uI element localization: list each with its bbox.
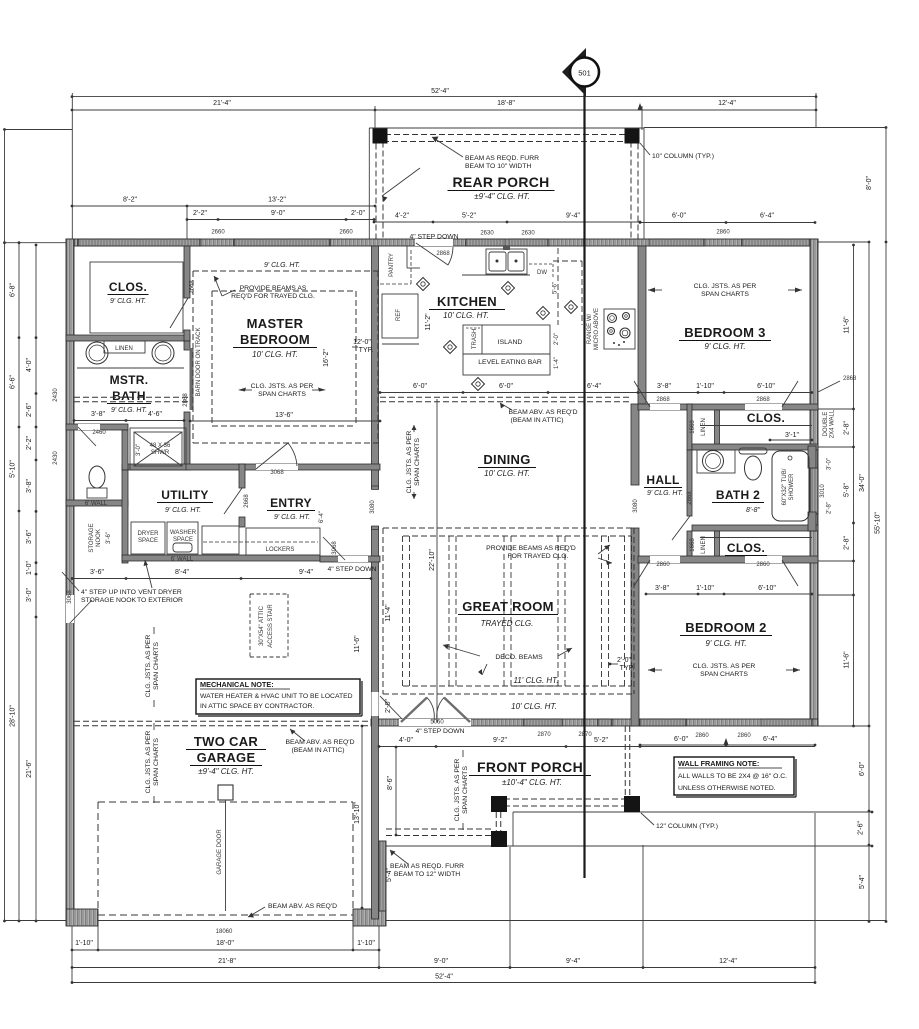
dim 13'-6 master [190, 420, 380, 422]
svg-text:2'-0": 2'-0" [554, 333, 560, 345]
great room tray dashed outer [383, 527, 634, 529]
svg-text:21'-4": 21'-4" [213, 100, 231, 107]
svg-text:UNLESS OTHERWISE NOTED.: UNLESS OTHERWISE NOTED. [678, 785, 776, 792]
svg-text:8'-0": 8'-0" [866, 176, 873, 190]
svg-text:1'-10": 1'-10" [696, 585, 714, 592]
svg-text:1668: 1668 [690, 538, 696, 552]
svg-text:2'-8": 2'-8" [827, 502, 833, 514]
svg-text:BEAM ABV. AS REQ'D: BEAM ABV. AS REQ'D [285, 739, 354, 746]
svg-text:BEAM ABV. AS REQ'D: BEAM ABV. AS REQ'D [268, 903, 337, 910]
svg-text:CLOS.: CLOS. [747, 411, 785, 425]
svg-text:2868: 2868 [183, 393, 189, 407]
door 2460 toilet room [78, 424, 100, 430]
exterior wall left [66, 239, 74, 919]
svg-text:9' CLG. HT.: 9' CLG. HT. [165, 507, 201, 514]
svg-text:2860: 2860 [756, 562, 770, 568]
door bedroom2 right 2868 [782, 560, 798, 586]
svg-text:4" STEP DOWN: 4" STEP DOWN [415, 728, 464, 735]
wall master south / utility north [122, 464, 380, 470]
svg-text:TYP.: TYP. [359, 347, 374, 354]
svg-text:VENT DRYER: VENT DRYER [138, 589, 182, 596]
svg-text:BEAM TO 12" WIDTH: BEAM TO 12" WIDTH [394, 871, 460, 878]
svg-text:LEVEL EATING BAR: LEVEL EATING BAR [478, 359, 542, 366]
svg-text:1'-10": 1'-10" [75, 940, 93, 947]
svg-text:BEAM TO 10" WIDTH: BEAM TO 10" WIDTH [465, 163, 531, 170]
wall closet bottom / bath2 top [692, 444, 818, 450]
svg-text:CLG. JSTS. AS PER: CLG. JSTS. AS PER [251, 383, 314, 390]
svg-text:12'-0": 12'-0" [353, 339, 371, 346]
svg-text:TRAYED CLG.: TRAYED CLG. [481, 619, 534, 628]
svg-text:CLG. JSTS. AS PER: CLG. JSTS. AS PER [145, 731, 152, 794]
linen cabinet master [104, 341, 145, 353]
svg-text:ISLAND: ISLAND [498, 339, 523, 346]
closet shelf lower [700, 537, 812, 539]
svg-text:2860: 2860 [656, 562, 670, 568]
wall master bath right (barn door wall) [184, 341, 190, 350]
door master bedroom 3068 [256, 464, 298, 470]
pantry walls [406, 246, 408, 268]
kitchen counter edge [462, 274, 530, 276]
garage right wall [372, 246, 379, 919]
svg-text:48 X 36: 48 X 36 [150, 443, 171, 449]
right dimension chain x=886 (8'-0", 55'-10") [885, 128, 887, 922]
svg-text:3'-6": 3'-6" [26, 530, 33, 544]
svg-text:REAR PORCH: REAR PORCH [452, 174, 549, 190]
svg-text:SHOWER: SHOWER [789, 473, 795, 501]
extension lines top [71, 93, 73, 239]
garage door track [218, 785, 233, 800]
tub nook wall [808, 446, 816, 468]
svg-text:13'-2": 13'-2" [268, 197, 286, 204]
wall linen upper left [687, 404, 692, 450]
lockers [246, 528, 320, 555]
svg-text:9'-2": 9'-2" [493, 737, 507, 744]
dimension row garage door 1'-10" 18'-0" 1'-10" [72, 949, 379, 951]
kitchen island [463, 325, 550, 375]
refrigerator [382, 294, 418, 338]
opening 3080 dining west wall [371, 489, 380, 526]
svg-text:2860: 2860 [737, 733, 751, 739]
svg-text:2'-8": 2'-8" [844, 536, 851, 550]
svg-text:5'-8": 5'-8" [844, 483, 851, 497]
svg-text:BEDROOM: BEDROOM [240, 332, 310, 347]
svg-text:2'-2": 2'-2" [26, 436, 33, 450]
svg-text:LINEN: LINEN [701, 536, 707, 554]
svg-text:10' CLG. HT.: 10' CLG. HT. [511, 702, 557, 711]
svg-text:9' CLG. HT.: 9' CLG. HT. [110, 298, 146, 305]
master bath vanity [77, 367, 184, 369]
svg-text:2'-8": 2'-8" [844, 421, 851, 435]
svg-text:6'-0": 6'-0" [859, 762, 866, 776]
svg-text:IN ATTIC SPACE BY CONTRACTOR.: IN ATTIC SPACE BY CONTRACTOR. [200, 703, 314, 710]
svg-text:4" STEP DOWN: 4" STEP DOWN [327, 566, 376, 573]
svg-text:9' CLG. HT.: 9' CLG. HT. [264, 262, 300, 269]
svg-text:LINEN: LINEN [115, 346, 133, 352]
svg-text:SPAN CHARTS: SPAN CHARTS [414, 438, 421, 486]
svg-text:21'-6": 21'-6" [26, 760, 33, 778]
svg-text:3'-6": 3'-6" [90, 569, 104, 576]
svg-text:2868: 2868 [436, 251, 450, 257]
window bath2 right [810, 468, 818, 514]
svg-text:DOUBLE: DOUBLE [823, 412, 829, 437]
svg-text:SPAN CHARTS: SPAN CHARTS [153, 738, 160, 786]
svg-text:CLG. JSTS. AS PER: CLG. JSTS. AS PER [693, 663, 756, 670]
dimension row 21'-8" 9'-0" 9'-4" 12'-4" [72, 967, 815, 969]
svg-text:RANGE W/: RANGE W/ [587, 314, 593, 345]
right dimension chain x=853 (11'-6" 2'-8" 5'-8" 2'-8" 11'-6") [853, 245, 855, 726]
svg-text:BATH 2: BATH 2 [716, 488, 760, 502]
svg-text:9' CLG. HT.: 9' CLG. HT. [274, 514, 310, 521]
svg-text:CLG. JSTS. AS PER: CLG. JSTS. AS PER [454, 759, 461, 822]
wall bedroom3 south [638, 404, 818, 410]
svg-text:3010: 3010 [820, 484, 826, 498]
svg-text:8'-8": 8'-8" [746, 507, 760, 514]
wall bath2 / hall [687, 450, 692, 516]
porch dashed outline [624, 726, 626, 797]
svg-text:3'-0": 3'-0" [827, 458, 833, 470]
svg-text:2'-6": 2'-6" [858, 821, 865, 835]
svg-text:TO EXTERIOR: TO EXTERIOR [137, 597, 183, 604]
svg-text:2660: 2660 [211, 230, 225, 236]
svg-text:55'-10": 55'-10" [875, 512, 882, 534]
svg-text:11' CLG. HT.: 11' CLG. HT. [513, 676, 558, 685]
svg-text:3068: 3068 [270, 470, 284, 476]
svg-text:11'-6": 11'-6" [354, 635, 361, 653]
svg-text:9' CLG. HT.: 9' CLG. HT. [705, 639, 746, 648]
column 12in porch right [624, 796, 640, 812]
svg-text:9' CLG. HT.: 9' CLG. HT. [647, 490, 683, 497]
svg-text:22'-10": 22'-10" [429, 549, 436, 571]
svg-text:9'-4": 9'-4" [566, 958, 580, 965]
column 10in rear porch right [625, 129, 640, 144]
svg-text:PANTRY: PANTRY [389, 253, 395, 277]
svg-text:10' CLG. HT.: 10' CLG. HT. [252, 350, 298, 359]
svg-text:2430: 2430 [53, 451, 59, 465]
dimension row 52'-4" bottom [72, 982, 815, 984]
svg-text:±9'-4" CLG. HT.: ±9'-4" CLG. HT. [198, 767, 254, 776]
svg-text:5'-2": 5'-2" [594, 737, 608, 744]
beam above dashed (kitchen/dining) [380, 396, 631, 398]
svg-text:501: 501 [578, 69, 591, 78]
svg-text:KITCHEN: KITCHEN [437, 294, 497, 309]
svg-text:60"X32" TUB/: 60"X32" TUB/ [782, 468, 788, 505]
wall toilet room top [66, 424, 128, 430]
svg-text:BARN DOOR ON TRACK: BARN DOOR ON TRACK [196, 328, 202, 397]
svg-text:28'-10": 28'-10" [10, 705, 17, 727]
svg-text:SPAN CHARTS: SPAN CHARTS [700, 671, 748, 678]
svg-text:PROVIDE BEAMS AS REQ'D: PROVIDE BEAMS AS REQ'D [486, 545, 576, 552]
svg-text:12'-4": 12'-4" [719, 958, 737, 965]
barn door on track [190, 348, 194, 410]
kitchen counter dashed right [553, 260, 582, 262]
svg-text:CLOS.: CLOS. [109, 280, 147, 294]
wall utility/lockers south [122, 555, 320, 561]
svg-text:3080: 3080 [370, 500, 376, 514]
svg-text:SPAN CHARTS: SPAN CHARTS [462, 766, 469, 814]
garage right wall veneer [379, 841, 386, 911]
svg-text:6'-4": 6'-4" [763, 736, 777, 743]
svg-text:SPAN CHARTS: SPAN CHARTS [701, 291, 749, 298]
svg-text:GARAGE DOOR: GARAGE DOOR [217, 829, 223, 875]
dimension line 8'-2" / 13'-2" [72, 205, 375, 207]
svg-text:2868: 2868 [756, 397, 770, 403]
section marker circle 501 [570, 58, 599, 87]
window bedroom3 a [649, 239, 704, 246]
bath2 tub [772, 451, 809, 521]
svg-text:3'-6": 3'-6" [106, 532, 112, 544]
shower 48x36 [130, 428, 186, 470]
svg-text:16'-2": 16'-2" [323, 349, 330, 367]
porch slab lines right [513, 811, 872, 813]
svg-text:GARAGE: GARAGE [197, 750, 256, 765]
bath2 vanity [697, 450, 735, 473]
dim row 3'-6 8'-4 9'-4 [72, 578, 371, 580]
svg-text:DRYER: DRYER [138, 531, 160, 537]
svg-text:GREAT ROOM: GREAT ROOM [462, 599, 554, 614]
dim 3'-8 4'-6 bath [74, 420, 184, 422]
svg-text:2X4 WALL: 2X4 WALL [830, 409, 836, 438]
svg-text:ALL WALLS TO BE 2X4 @ 16" O.C.: ALL WALLS TO BE 2X4 @ 16" O.C. [678, 773, 787, 780]
window bedroom3 b [742, 239, 812, 246]
svg-text:34'-0": 34'-0" [859, 474, 866, 492]
wall utility/entry divider [239, 464, 245, 488]
svg-text:2630: 2630 [480, 231, 494, 237]
svg-text:13'-6": 13'-6" [275, 412, 293, 419]
range with 4 burners [604, 309, 635, 349]
svg-text:FRONT PORCH: FRONT PORCH [477, 759, 583, 775]
door bath2 2868 [672, 516, 690, 540]
section marker flag [562, 48, 586, 96]
svg-text:3068: 3068 [67, 590, 73, 604]
right extension y=127.5 [644, 127, 886, 129]
door bedroom3 left 2868 [634, 381, 650, 407]
svg-text:10' CLG. HT.: 10' CLG. HT. [484, 469, 530, 478]
wall bedroom2 north [638, 556, 818, 563]
svg-text:11'-4": 11'-4" [385, 604, 392, 622]
svg-text:2870: 2870 [537, 732, 551, 738]
svg-text:CLOS.: CLOS. [727, 541, 765, 555]
svg-text:18060: 18060 [216, 929, 233, 935]
garage door dashed opening [98, 801, 353, 803]
svg-text:52'-4": 52'-4" [431, 88, 449, 95]
svg-text:SPACE: SPACE [173, 537, 193, 543]
mechanical note box [196, 679, 360, 714]
svg-text:21'-8": 21'-8" [218, 958, 236, 965]
svg-text:5'-4": 5'-4" [386, 868, 393, 882]
column 12in porch left lower [491, 831, 507, 847]
svg-text:2'-6": 2'-6" [26, 403, 33, 417]
front door double 5060 [399, 719, 471, 726]
svg-text:BEDROOM 2: BEDROOM 2 [685, 620, 766, 635]
door garage side 3068 [66, 595, 74, 623]
svg-text:FOR TRAYED CLG.: FOR TRAYED CLG. [508, 553, 569, 560]
dimension line 6'-0" 6'-4" (top right) [640, 222, 815, 224]
svg-text:BEAM AS REQD. FURR: BEAM AS REQD. FURR [390, 863, 464, 870]
window great room a [524, 719, 562, 726]
door utility/entry 2668 [224, 488, 242, 514]
svg-text:2'-0": 2'-0" [617, 657, 631, 664]
svg-text:SPAN CHARTS: SPAN CHARTS [153, 642, 160, 690]
svg-text:3'-8": 3'-8" [655, 585, 669, 592]
svg-text:1668: 1668 [690, 420, 696, 434]
dimension line 2'-2" 9'-0" 2'-0" [187, 219, 374, 221]
dimension line 52'-4" top [72, 96, 816, 98]
svg-text:8'-4": 8'-4" [175, 569, 189, 576]
wall linen upper right [715, 410, 720, 450]
window top wall 2 [234, 239, 330, 246]
svg-text:2668: 2668 [244, 494, 250, 508]
svg-text:CLG. JSTS. AS PER: CLG. JSTS. AS PER [694, 283, 757, 290]
svg-text:6' WALL: 6' WALL [171, 557, 194, 563]
svg-text:2460: 2460 [92, 430, 106, 436]
wall hall / great room (west of hall) [631, 404, 639, 485]
svg-text:(BEAM IN ATTIC): (BEAM IN ATTIC) [291, 747, 344, 754]
great room tray dashed inner [403, 535, 631, 537]
door entry to garage 3068 [338, 556, 368, 562]
svg-text:DW: DW [537, 270, 547, 276]
svg-text:5060: 5060 [430, 720, 444, 726]
svg-text:BEAM AS REQD. FURR: BEAM AS REQD. FURR [465, 155, 539, 162]
svg-text:5'-10": 5'-10" [10, 460, 17, 478]
svg-text:WASHER: WASHER [170, 530, 197, 536]
svg-text:6'-0": 6'-0" [499, 383, 513, 390]
svg-text:3'-8": 3'-8" [26, 479, 33, 493]
garage beam dashed [74, 720, 371, 722]
wall bath2 bottom / closet2 top [692, 525, 818, 531]
dim row porch 4'-0 9'-2 5'-2 6'-0 6'-4 [379, 746, 815, 748]
svg-text:MSTR.: MSTR. [110, 373, 149, 387]
svg-text:SPAN CHARTS: SPAN CHARTS [258, 391, 306, 398]
svg-text:BATH: BATH [112, 389, 146, 403]
door kitchen to rear porch 2868 [415, 239, 453, 246]
svg-text:11'-2": 11'-2" [425, 313, 432, 331]
exterior wall bottom bedroom2 wing [371, 719, 818, 726]
column 10in rear porch left [373, 129, 388, 144]
svg-text:TYP.: TYP. [620, 665, 635, 672]
svg-text:DINING: DINING [483, 452, 530, 467]
right dimension chain x=869 (34'-0" 6'-0" 2'-6" 5'-4") [868, 242, 870, 922]
svg-text:52'-4": 52'-4" [435, 974, 453, 981]
wall storage nook right [122, 470, 128, 563]
svg-text:MICRO ABOVE: MICRO ABOVE [594, 308, 600, 350]
svg-text:HALL: HALL [646, 473, 679, 487]
column 12in porch left upper [491, 796, 507, 812]
dim row bedroom2 3'-8 1'-10 6'-10 [646, 593, 812, 595]
svg-text:SHWR: SHWR [151, 450, 170, 456]
svg-text:30"X54" ATTIC: 30"X54" ATTIC [259, 605, 265, 645]
svg-text:MASTER: MASTER [247, 316, 304, 331]
svg-text:5'-2": 5'-2" [462, 213, 476, 220]
svg-text:3080: 3080 [633, 499, 639, 513]
svg-text:11'-6": 11'-6" [844, 651, 851, 669]
wall linen lower right [715, 531, 720, 562]
wall master closet right [184, 246, 190, 298]
window bedroom2 a [640, 719, 686, 726]
door bedroom3 right 2868 [782, 381, 798, 407]
svg-text:2630: 2630 [521, 231, 535, 237]
svg-text:NOOK: NOOK [96, 529, 102, 547]
svg-text:REF: REF [396, 309, 402, 321]
svg-text:6'-4": 6'-4" [760, 213, 774, 220]
kitchen dimension row 6'-0 6'-0 6'-4 3'-8 1'-10 6'-10 [380, 392, 812, 394]
exterior wall top [66, 239, 818, 246]
svg-text:10' CLG. HT.: 10' CLG. HT. [443, 311, 489, 320]
svg-text:5'-4": 5'-4" [859, 875, 866, 889]
door great room sw [372, 692, 379, 716]
bottom extension lines [71, 919, 73, 984]
svg-text:6'-0": 6'-0" [672, 213, 686, 220]
rear porch dashed beam lines [376, 134, 638, 136]
svg-text:3'-0": 3'-0" [26, 588, 33, 602]
wall kitchen / bedroom3 divider [638, 246, 646, 404]
svg-text:2430: 2430 [53, 388, 59, 402]
master tray ceiling dashed outer [193, 270, 378, 272]
svg-text:9' CLG. HT.: 9' CLG. HT. [111, 407, 147, 414]
svg-text:REQ'D FOR TRAYED CLG.: REQ'D FOR TRAYED CLG. [231, 293, 315, 300]
left dimension chain x=19 [18, 243, 20, 921]
svg-text:9'-4": 9'-4" [299, 569, 313, 576]
label CLOS master [90, 262, 183, 333]
window top wall 1 [78, 239, 200, 246]
svg-text:18'-0": 18'-0" [216, 940, 234, 947]
wall linen lower left [687, 531, 692, 562]
svg-text:2868: 2868 [843, 376, 857, 382]
svg-text:WATER HEATER & HVAC UNIT TO BE: WATER HEATER & HVAC UNIT TO BE LOCATED [200, 693, 353, 700]
dimension line 21'-4" / 18'-8" / 12'-4" [72, 109, 816, 111]
kitchen sink [486, 249, 527, 274]
svg-text:2868: 2868 [687, 491, 693, 505]
door master closet 2668 [170, 298, 188, 328]
svg-text:2860: 2860 [716, 230, 730, 236]
svg-text:BEDROOM 3: BEDROOM 3 [684, 325, 765, 340]
svg-text:5'-6": 5'-6" [553, 282, 559, 294]
great room deco beams verticals [402, 536, 404, 686]
svg-text:2'-0": 2'-0" [351, 210, 365, 217]
svg-text:±10'-4" CLG. HT.: ±10'-4" CLG. HT. [502, 778, 562, 787]
wall toilet/shower divider vertical [122, 430, 128, 470]
dishwasher [529, 263, 553, 265]
svg-text:1'-10": 1'-10" [357, 940, 375, 947]
attic access dashed box [250, 593, 288, 595]
left dimension chain x=36 [35, 245, 37, 921]
rear porch outline [369, 127, 644, 129]
svg-text:18'-8": 18'-8" [497, 100, 515, 107]
exterior wall right [810, 239, 818, 726]
svg-text:LINEN: LINEN [701, 418, 707, 436]
svg-text:8'-2": 8'-2" [123, 197, 137, 204]
svg-text:12'-4": 12'-4" [718, 100, 736, 107]
svg-text:BEAM ABV. AS REQ'D: BEAM ABV. AS REQ'D [508, 409, 577, 416]
svg-text:2868: 2868 [656, 397, 670, 403]
svg-text:1'-10": 1'-10" [696, 383, 714, 390]
svg-text:TRASH: TRASH [472, 329, 478, 349]
svg-text:4'-6": 4'-6" [148, 411, 162, 418]
window kitchen sink a [466, 239, 505, 246]
svg-text:1'-0": 1'-0" [26, 561, 33, 575]
svg-text:3'-1": 3'-1" [785, 432, 799, 439]
wall toilet room bottom 6ft [66, 500, 128, 506]
left extension line x=4 [4, 130, 6, 922]
svg-text:12" COLUMN (TYP.): 12" COLUMN (TYP.) [656, 823, 718, 830]
svg-text:2660: 2660 [339, 230, 353, 236]
svg-text:8'-6": 8'-6" [387, 776, 394, 790]
svg-text:4" STEP UP INTO: 4" STEP UP INTO [81, 589, 136, 596]
svg-text:3'-8": 3'-8" [91, 411, 105, 418]
exterior wall garage bottom right corner [353, 909, 386, 926]
svg-text:LOCKERS: LOCKERS [266, 547, 295, 553]
svg-text:6'-0": 6'-0" [413, 383, 427, 390]
window kitchen sink b [509, 239, 548, 246]
